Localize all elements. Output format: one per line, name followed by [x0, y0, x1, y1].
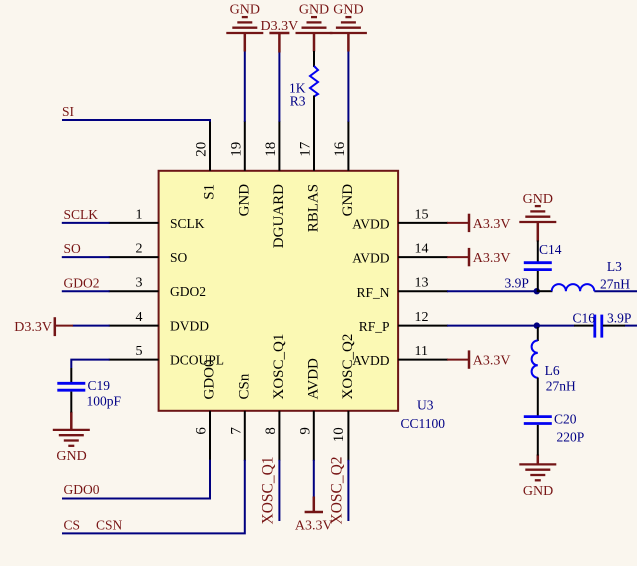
pin 12 RF_P [359, 310, 448, 334]
ground GND below C19 [53, 412, 90, 446]
svg-text:14: 14 [415, 242, 429, 257]
capacitor C16 3.9P on pin 12 net [572, 310, 631, 337]
wire pin 10 net XOSC_Q2 [347, 460, 349, 521]
wire pin 13 to junction A [447, 290, 537, 292]
inductor L3 27nH on pin 13 net [537, 259, 630, 292]
svg-text:A3.3V: A3.3V [473, 354, 511, 369]
svg-text:C14: C14 [539, 242, 562, 257]
wire net SO to pin 2 [62, 256, 110, 258]
svg-text:19: 19 [228, 142, 244, 157]
svg-text:20: 20 [194, 142, 210, 157]
svg-text:8: 8 [263, 427, 279, 435]
pin 7 CSn [228, 373, 252, 461]
ground GND above pin 17 (inverted) [296, 17, 333, 51]
svg-text:3.9P: 3.9P [505, 276, 529, 291]
power A3.3V at pin 14 [447, 248, 469, 266]
wire pin 18 to D3.3V [278, 52, 280, 122]
wire pin 5 to C19 [71, 360, 109, 368]
svg-text:3: 3 [136, 276, 143, 291]
svg-text:GND: GND [523, 192, 553, 207]
svg-text:GND: GND [340, 184, 356, 217]
svg-text:12: 12 [415, 310, 429, 325]
power A3.3V at pin 15 [447, 214, 469, 232]
wire pin 6 to net GDO0 [62, 460, 210, 499]
svg-text:16: 16 [332, 141, 348, 157]
pin 17 RBLAS [298, 121, 322, 232]
svg-text:27nH: 27nH [600, 277, 630, 292]
wire L3 to right edge [594, 290, 637, 292]
wire pin 19 to GND [244, 51, 246, 122]
svg-text:17: 17 [298, 141, 314, 157]
svg-text:13: 13 [415, 276, 429, 291]
svg-text:C19: C19 [88, 378, 111, 393]
svg-text:CSN: CSN [96, 518, 123, 533]
power D3.3V at pin 4 [55, 317, 73, 336]
svg-text:1: 1 [136, 207, 143, 222]
wire D3.3V to pin 4 [73, 325, 110, 327]
svg-text:4: 4 [136, 310, 143, 325]
inductor L6 27nH [532, 327, 576, 416]
svg-text:GDO0: GDO0 [64, 482, 100, 497]
svg-text:XOSC_Q2: XOSC_Q2 [329, 456, 346, 524]
pin 13 RF_N [356, 276, 448, 300]
svg-text:XOSC_Q2: XOSC_Q2 [340, 334, 356, 400]
junction A dot on pin 13 wire [534, 288, 540, 294]
wire net GDO2 to pin 3 [62, 290, 110, 292]
pin 4 DVDD [109, 310, 210, 334]
svg-text:220P: 220P [557, 430, 585, 445]
svg-text:CC1100: CC1100 [401, 416, 446, 431]
wire pin 16 to GND [347, 51, 349, 122]
IC U3 CC1100 body [159, 171, 399, 411]
pin 18 DGUARD [263, 121, 287, 248]
power A3.3V below pin 9 [305, 497, 323, 513]
pin 14 AVDD [352, 242, 448, 266]
svg-text:C16: C16 [572, 310, 595, 325]
svg-text:3.9P: 3.9P [607, 310, 631, 325]
svg-text:DGUARD: DGUARD [271, 184, 287, 248]
pin 6 GDO0 [194, 360, 218, 461]
svg-text:11: 11 [415, 344, 428, 359]
svg-text:D3.3V: D3.3V [261, 19, 299, 34]
svg-text:AVDD: AVDD [352, 251, 390, 266]
svg-text:L3: L3 [607, 259, 622, 274]
svg-text:AVDD: AVDD [305, 358, 321, 400]
pin 20 S1 [194, 121, 218, 200]
svg-text:D3.3V: D3.3V [14, 320, 52, 335]
svg-text:GND: GND [56, 449, 86, 464]
pin 2 SO [109, 242, 188, 266]
svg-text:C20: C20 [554, 412, 577, 427]
svg-text:RF_N: RF_N [356, 285, 389, 300]
svg-text:GND: GND [236, 184, 252, 217]
svg-text:R3: R3 [290, 94, 306, 109]
pin 16 GND [332, 121, 356, 217]
svg-text:SCLK: SCLK [64, 207, 99, 222]
svg-text:15: 15 [415, 207, 429, 222]
svg-text:SO: SO [64, 241, 82, 256]
svg-text:18: 18 [263, 142, 279, 157]
svg-text:SI: SI [62, 104, 75, 119]
svg-text:GND: GND [333, 2, 363, 17]
ground GND above pin 16 (inverted) [330, 17, 367, 51]
svg-text:27nH: 27nH [546, 379, 576, 394]
svg-text:CSn: CSn [236, 373, 252, 399]
svg-text:6: 6 [194, 427, 210, 435]
svg-text:CS: CS [64, 518, 81, 533]
svg-text:GND: GND [230, 2, 260, 17]
svg-text:7: 7 [228, 427, 244, 435]
capacitor C20 220P [524, 412, 584, 456]
pin 15 AVDD [352, 207, 448, 231]
svg-text:RBLAS: RBLAS [306, 184, 322, 232]
svg-text:AVDD: AVDD [352, 353, 390, 368]
svg-text:2: 2 [136, 242, 143, 257]
svg-text:DVDD: DVDD [170, 319, 209, 334]
wire pin 9 to A3.3V [313, 460, 315, 498]
ground GND below C20 [519, 455, 556, 481]
resistor R3 1K on pin 17 [289, 51, 318, 122]
pin 8 XOSC_Q1 [263, 334, 287, 461]
wire net SCLK to pin 1 [62, 222, 110, 224]
svg-text:GDO2: GDO2 [170, 284, 206, 299]
svg-text:L6: L6 [545, 363, 560, 378]
svg-text:S1: S1 [202, 184, 218, 200]
pin 11 AVDD [352, 344, 448, 368]
power A3.3V at pin 11 [447, 350, 469, 368]
pin 1 SCLK [109, 207, 205, 231]
svg-text:SO: SO [170, 250, 188, 265]
svg-text:A3.3V: A3.3V [473, 251, 511, 266]
ground GND above pin 19 (inverted) [226, 17, 263, 51]
svg-text:A3.3V: A3.3V [473, 217, 511, 232]
svg-text:XOSC_Q1: XOSC_Q1 [271, 334, 287, 400]
svg-text:GDO2: GDO2 [64, 275, 100, 290]
wire pin 8 net XOSC_Q1 [278, 460, 280, 521]
pin 10 XOSC_Q2 [331, 334, 356, 461]
ground GND above C14 (inverted) [519, 206, 556, 241]
svg-text:5: 5 [136, 344, 143, 359]
pin 9 AVDD [297, 358, 321, 461]
svg-text:A3.3V: A3.3V [295, 519, 333, 534]
pin 5 DCOUPL [109, 344, 224, 368]
wire C16 to right edge [625, 325, 637, 327]
svg-text:SCLK: SCLK [170, 216, 205, 231]
svg-text:RF_P: RF_P [359, 319, 390, 334]
wire net SI to pin 20 [62, 120, 210, 122]
pin 19 GND [228, 121, 252, 217]
svg-text:GND: GND [299, 2, 329, 17]
capacitor C19 100pF [57, 368, 121, 412]
svg-text:U3: U3 [417, 398, 434, 413]
capacitor C14 [505, 241, 562, 292]
wire pin 12 to C16 [447, 325, 574, 327]
pin 3 GDO2 [109, 276, 206, 300]
svg-text:9: 9 [297, 427, 313, 435]
junction B dot on pin 12 wire [534, 322, 540, 328]
svg-text:10: 10 [331, 427, 347, 442]
wire pin 7 to net CS_CSN [62, 460, 245, 534]
svg-text:GDO0: GDO0 [202, 360, 218, 400]
svg-text:GND: GND [523, 484, 553, 499]
svg-text:AVDD: AVDD [352, 217, 390, 232]
power D3.3V above pin 18 [269, 33, 289, 53]
svg-text:100pF: 100pF [87, 394, 122, 409]
svg-text:XOSC_Q1: XOSC_Q1 [260, 456, 277, 524]
